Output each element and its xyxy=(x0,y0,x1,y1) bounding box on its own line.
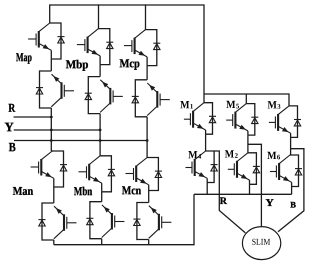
svg-text:6: 6 xyxy=(277,154,281,161)
svg-text:B: B xyxy=(9,140,16,154)
svg-text:5: 5 xyxy=(236,103,240,110)
IGBT switch Mcp with anti-parallel diode xyxy=(124,30,160,66)
output R tap and lead to motor xyxy=(214,151,245,233)
svg-text:Mcn: Mcn xyxy=(122,183,141,197)
svg-text:4: 4 xyxy=(198,154,202,161)
wire: Mcn emitter to lower device xyxy=(148,191,150,203)
SLIM motor circle xyxy=(242,227,280,260)
junction dots at input line crossings xyxy=(50,116,149,142)
label M4 xyxy=(188,149,202,161)
svg-text:M: M xyxy=(225,149,235,161)
svg-text:Mcp: Mcp xyxy=(119,56,140,70)
svg-text:2: 2 xyxy=(235,153,239,160)
input line B xyxy=(14,140,147,142)
label M6 xyxy=(267,150,281,162)
top DC-link bus (left converter to right inverter) xyxy=(50,4,204,6)
IGBT switch M3 with anti-parallel diode xyxy=(269,106,301,137)
IGBT switch M1 with anti-parallel diode xyxy=(184,103,216,135)
IGBT switch M2 with anti-parallel diode xyxy=(228,153,260,185)
svg-text:Man: Man xyxy=(13,184,34,198)
wire: leg Y mid vertical xyxy=(247,135,249,153)
input line Y xyxy=(14,129,100,131)
wire: M5 top drop xyxy=(245,94,247,104)
wire: Man emitter to lower device xyxy=(53,187,55,203)
wire: Mbn emitter to lower device xyxy=(101,192,103,202)
wire: phase-c top drop from bus xyxy=(145,4,147,29)
wire: phase-b bottom drop to bottom bus xyxy=(101,239,103,245)
wire: phase-a mid vertical to Man xyxy=(51,108,53,151)
svg-text:M: M xyxy=(188,149,198,161)
output B tap and lead to motor xyxy=(278,149,304,232)
IGBT switch Mbn with anti-parallel diode xyxy=(79,156,115,192)
inverter top rail xyxy=(204,94,289,106)
IGBT switch M5 with anti-parallel diode xyxy=(226,104,258,136)
bottom DC-link bus xyxy=(54,194,194,244)
reverse IGBT of Mcp bidirectional pair with anti-parallel diode xyxy=(132,80,170,117)
wire: Mbp emitter to lower device xyxy=(99,65,101,77)
svg-text:Map: Map xyxy=(16,50,32,64)
wire: M2 emitter to bottom rail xyxy=(249,184,251,194)
reverse IGBT of Map bidirectional pair with anti-parallel diode xyxy=(36,71,74,108)
wire: phase-a top drop from bus xyxy=(49,4,51,23)
wire: phase-c bottom drop to bottom bus xyxy=(148,240,150,245)
label M3 xyxy=(267,99,281,111)
wire: phase-b mid vertical to Mbn xyxy=(99,114,101,156)
reverse IGBT of Mbn bidirectional pair with anti-parallel diode xyxy=(86,202,124,239)
wire: leg B mid vertical xyxy=(290,137,291,155)
IGBT switch Map with anti-parallel diode xyxy=(28,23,64,59)
reverse IGBT of Mbp bidirectional pair with anti-parallel diode xyxy=(85,77,123,114)
wire: Mcp emitter to lower device xyxy=(146,66,148,80)
inverter bottom rail xyxy=(194,193,292,195)
IGBT switch Mcn with anti-parallel diode xyxy=(126,158,162,191)
svg-text:Y: Y xyxy=(265,198,274,209)
svg-text:M: M xyxy=(226,99,236,111)
wire: phase-b top drop from bus xyxy=(98,4,100,28)
IGBT switch M4 with anti-parallel diode xyxy=(186,151,218,183)
IGBT switch Mbp with anti-parallel diode xyxy=(77,29,113,65)
reverse IGBT of Mcn bidirectional pair with anti-parallel diode xyxy=(133,203,171,240)
wire: DC-link positive rail drop xyxy=(203,4,205,102)
wire: M4 emitter to bottom rail xyxy=(206,183,208,195)
label M1 xyxy=(180,99,194,111)
output Y tap and lead to motor xyxy=(248,144,262,227)
svg-text:M: M xyxy=(267,150,277,162)
svg-text:Y: Y xyxy=(5,119,15,134)
reverse IGBT of Man bidirectional pair with anti-parallel diode xyxy=(39,203,77,240)
IGBT switch Man with anti-parallel diode xyxy=(31,151,67,187)
wire: phase-a bottom drop to bottom bus xyxy=(53,240,55,245)
svg-text:1: 1 xyxy=(190,104,194,111)
label M5 xyxy=(226,99,240,111)
wire: Map emitter to lower device xyxy=(50,59,52,71)
svg-text:M: M xyxy=(267,99,277,111)
svg-text:Mbn: Mbn xyxy=(74,184,93,198)
svg-text:SLIM: SLIM xyxy=(252,237,271,247)
label M2 xyxy=(225,149,239,161)
svg-text:R: R xyxy=(220,196,228,207)
svg-text:3: 3 xyxy=(277,104,281,111)
IGBT switch M6 with anti-parallel diode xyxy=(270,155,302,187)
wire: phase-c mid vertical to Mcn xyxy=(146,117,148,158)
svg-text:Mbp: Mbp xyxy=(66,57,89,71)
svg-text:R: R xyxy=(8,101,15,115)
svg-text:B: B xyxy=(290,200,296,210)
wire: M6 emitter to bottom rail xyxy=(291,187,293,195)
svg-text:M: M xyxy=(180,99,190,111)
input line R xyxy=(14,116,52,118)
wire: leg R mid vertical xyxy=(205,134,207,151)
